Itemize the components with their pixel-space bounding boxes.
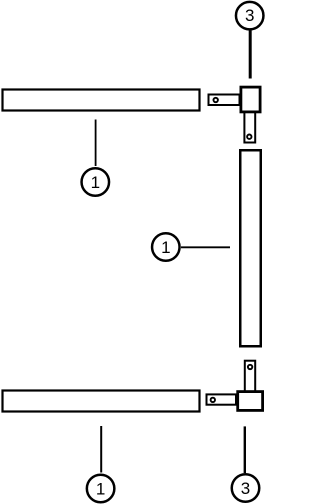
svg-text:1: 1 <box>91 173 100 192</box>
svg-text:3: 3 <box>241 479 250 498</box>
svg-text:1: 1 <box>96 480 105 499</box>
svg-text:3: 3 <box>245 6 254 25</box>
svg-text:1: 1 <box>161 238 170 257</box>
